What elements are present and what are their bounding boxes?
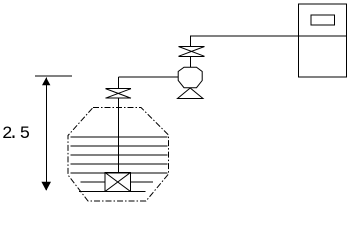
- dimension arrowhead top: [42, 78, 50, 86]
- valve V2: [106, 89, 132, 99]
- short line left of distributor: [81, 181, 106, 183]
- wire: corner down to valve V2: [117, 77, 119, 89]
- tray line 4: [71, 163, 168, 165]
- tray line 3: [71, 154, 168, 156]
- indicator window on control box: [311, 15, 335, 25]
- distributor box with X: [105, 173, 131, 192]
- wire: valve V1 corner to control box / divider: [191, 35, 347, 37]
- dimension label 2.5: [1, 125, 3, 127]
- dimension line: [45, 78, 47, 191]
- tray line 2: [71, 145, 168, 147]
- wire: pump P1 to corner above valve V2: [118, 76, 178, 78]
- pump P1 outlet triangle: [178, 88, 204, 99]
- pipe: valve V2 down into tank to distributor: [117, 98, 119, 173]
- tray line 1: [71, 136, 168, 138]
- control box U1: [299, 4, 347, 77]
- pump P1 body (octagon): [178, 67, 202, 88]
- dimension arrowhead bottom: [41, 182, 51, 191]
- short line right of distributor: [131, 181, 154, 183]
- tray line 5: [71, 172, 168, 174]
- wire: corner down to valve V1: [190, 36, 192, 47]
- bottom line under distributor: [79, 191, 146, 193]
- valve V1: [179, 47, 205, 57]
- tank T1 boundary (dash-dot octagon): [68, 108, 169, 202]
- dimension datum bar: [35, 75, 72, 77]
- wire: valve V1 to pump P1: [190, 56, 192, 67]
